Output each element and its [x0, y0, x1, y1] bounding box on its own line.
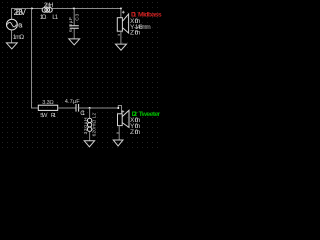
svg-text:2.83V: 2.83V — [14, 8, 27, 17]
svg-text:5W: 5W — [40, 113, 48, 119]
wire generator bottom — [11, 31, 13, 43]
inductor L2 — [87, 118, 91, 122]
ground (L2) — [84, 141, 94, 147]
wire top rail left segment — [12, 9, 43, 20]
svg-text:C3: C3 — [75, 14, 81, 21]
ground (C3) — [69, 39, 80, 45]
svg-text:L1: L1 — [52, 14, 58, 21]
minus mark D2 — [117, 132, 119, 134]
svg-text:2mH: 2mH — [44, 2, 54, 9]
node junction top-left — [31, 8, 33, 10]
node junction bottom — [89, 107, 91, 109]
wire L2 branch lower — [89, 132, 91, 141]
svg-text:0s: 0s — [18, 22, 23, 29]
svg-text:C1: C1 — [80, 110, 85, 117]
svg-text:1mΩ: 1mΩ — [13, 34, 25, 41]
ground (D1) — [116, 44, 127, 50]
wire L2 branch upper — [89, 108, 91, 118]
svg-text:Z: Z — [130, 129, 134, 136]
ground (D2) — [113, 140, 123, 146]
svg-text:Tweeter: Tweeter — [139, 111, 161, 118]
svg-text:330µH: 330µH — [83, 117, 89, 134]
svg-text:4.7µF: 4.7µF — [65, 99, 81, 105]
generator U1 — [6, 19, 17, 30]
svg-text:6.8µF: 6.8µF — [68, 17, 74, 32]
plus mark D2 — [121, 110, 124, 113]
svg-text:Midbass: Midbass — [138, 12, 162, 19]
wire D2 hookup — [118, 106, 121, 114]
svg-text:1Ω: 1Ω — [40, 14, 47, 21]
wire C3 branch upper — [73, 9, 75, 26]
resistor R1 — [38, 105, 57, 110]
svg-text:0m: 0m — [135, 129, 141, 136]
svg-text:3.3Ω: 3.3Ω — [42, 100, 53, 106]
wire C3 branch lower — [73, 29, 75, 39]
minus mark D1 — [118, 34, 120, 36]
wire D1 top stub — [120, 9, 122, 18]
svg-text:R1: R1 — [51, 113, 56, 119]
wire D1 bottom stub — [120, 31, 122, 44]
speaker D2 Tweeter — [118, 114, 123, 126]
node corner D1 — [120, 8, 122, 10]
inductor L1 — [42, 8, 47, 13]
wire top rail right segment — [52, 8, 121, 10]
svg-text:620mΩ L2: 620mΩ L2 — [92, 113, 98, 137]
capacitor C3 — [70, 26, 79, 29]
speaker D1 Midbass — [117, 18, 122, 32]
wire feed down to R1 — [32, 9, 39, 109]
wire C1 to D2 — [79, 107, 119, 109]
wire D2 bottom stub — [118, 126, 120, 140]
svg-text:0m: 0m — [135, 30, 141, 37]
node junction top-mid — [73, 8, 75, 10]
node corner D2 — [117, 107, 119, 109]
svg-text:Z: Z — [130, 30, 134, 37]
capacitor C1 — [76, 104, 79, 112]
plus mark D1 — [122, 11, 125, 14]
ground (generator) — [6, 43, 17, 49]
wire R1 to C1 — [58, 107, 76, 109]
